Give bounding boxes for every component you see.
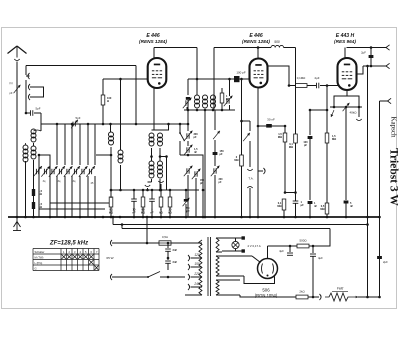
tube V1: [148, 58, 167, 88]
IF coil C: [211, 95, 216, 108]
earth: [13, 217, 21, 231]
rectifier tube 506: [258, 259, 278, 279]
label 506: [255, 288, 278, 299]
component 0,5MΩ: [141, 189, 145, 217]
label pad1: [0, 0, 1, 1]
svg-text:65 W: 65 W: [106, 256, 113, 260]
bus joints left: [16, 216, 97, 219]
bandfilter coil L4: [109, 123, 114, 145]
svg-text:μF: μF: [301, 203, 305, 207]
svg-text:4μF: 4μF: [279, 249, 284, 253]
wire w11: [188, 78, 198, 95]
resistor R7 0,1M: [289, 86, 297, 193]
cap C20 5nF: [308, 201, 318, 217]
resistor R8 0,1M: [277, 193, 285, 218]
cap C8: [184, 145, 198, 156]
resistor R9 1,5M: [325, 86, 336, 204]
svg-text:pF: pF: [194, 136, 198, 139]
wire V1 gridcap: [154, 48, 197, 96]
wire V1 bottom: [153, 88, 155, 130]
gang cap G6: [71, 166, 80, 177]
wire mains bottom: [168, 276, 185, 278]
svg-text:(RENS 1284): (RENS 1284): [242, 39, 270, 44]
svg-text:L (PG): L (PG): [35, 261, 43, 265]
bandfilter coil L5: [118, 78, 123, 163]
band switch table: [33, 249, 99, 271]
wire w10: [166, 157, 168, 191]
transformer sec 3: [216, 280, 230, 295]
gang cap G1: [33, 166, 42, 177]
tube V2: [250, 59, 268, 88]
tap 220: [188, 272, 202, 280]
wire V2 cathode: [257, 88, 260, 218]
bracket J2J3: [34, 87, 44, 97]
pot right leg: [356, 101, 361, 121]
resistor R6 1,5M: [278, 126, 287, 193]
svg-text:2nF: 2nF: [173, 260, 178, 264]
varrow pad1: [184, 155, 193, 217]
wire w4: [33, 143, 35, 189]
trimmer C1: [9, 81, 20, 95]
coil L3: [31, 146, 36, 159]
bracket w13: [188, 155, 204, 217]
svg-text:M (TW): M (TW): [35, 255, 44, 259]
V3 anode: [356, 66, 364, 74]
capacitor C2 5pF: [26, 107, 41, 132]
wire V3 top: [344, 48, 346, 59]
table row labels: [35, 250, 45, 270]
svg-text:MΩ: MΩ: [141, 211, 145, 215]
svg-text:506: 506: [262, 288, 270, 293]
trimmer C4: [183, 98, 192, 110]
wire mid h: [155, 123, 189, 126]
pot left leg: [331, 101, 334, 117]
cap C19 2uF: [377, 256, 388, 264]
field coil: [325, 293, 351, 301]
svg-text:500: 500: [274, 40, 280, 44]
transformer sec 1: [216, 238, 222, 252]
heater rect tap: [226, 280, 240, 284]
svg-text:500Ω: 500Ω: [300, 239, 308, 243]
gang cap G5: [64, 166, 73, 177]
component 20kΩ: [168, 189, 172, 217]
jack J2: [28, 84, 33, 90]
wire w14: [224, 79, 233, 110]
svg-text:nF: nF: [194, 151, 198, 154]
IF coil B: [203, 95, 208, 108]
wire bus drop: [146, 216, 149, 245]
svg-text:nF: nF: [132, 211, 136, 215]
wire w5: [33, 196, 35, 202]
wire w15: [309, 109, 329, 112]
resistor R4 1k: [220, 88, 229, 110]
svg-text:Ω: Ω: [107, 99, 109, 103]
svg-text:Kapsch: Kapsch: [390, 117, 398, 138]
B+ rail top: [214, 46, 271, 110]
resistor R5 2M: [234, 79, 250, 217]
cap C16 2nF: [165, 252, 177, 271]
component 6kΩ: [159, 189, 163, 217]
wire w2: [25, 80, 28, 114]
transformer primary winding: [199, 240, 202, 295]
label 65W: [106, 256, 113, 260]
wire w17: [379, 101, 381, 297]
label V3: [334, 33, 356, 44]
svg-text:T.A.: T.A.: [248, 177, 253, 181]
gang cap G8: [86, 166, 95, 177]
svg-text:(RES 964): (RES 964): [334, 39, 356, 44]
svg-text:MΩ: MΩ: [109, 211, 113, 215]
coil L1: [31, 129, 41, 142]
osc coil bar: [152, 123, 170, 130]
svg-text:MΩ: MΩ: [278, 135, 282, 139]
svg-text:MΩ: MΩ: [234, 158, 238, 162]
coil L2: [23, 145, 28, 162]
osc coil La: [149, 133, 154, 146]
svg-text:0,5A: 0,5A: [162, 235, 168, 239]
jack J1: [26, 73, 30, 79]
resistor R11 500: [290, 239, 314, 248]
field coil label: [332, 287, 348, 292]
lamp P1: [222, 236, 261, 252]
speaker line 1: [347, 45, 390, 50]
grid line V3: [289, 76, 338, 88]
coil L6: [96, 154, 112, 157]
cap C12 1uF: [293, 193, 304, 218]
varrow pad2: [192, 110, 205, 217]
svg-text:pF: pF: [304, 144, 308, 147]
cap C9 150pF: [213, 150, 225, 166]
wire w9: [110, 190, 112, 198]
fork osc: [145, 179, 162, 191]
wire w7: [135, 66, 138, 126]
svg-text:0,1MΩ: 0,1MΩ: [297, 76, 306, 80]
pot 40k: [330, 103, 362, 115]
cap C10 100pF: [197, 71, 250, 83]
wire w8: [111, 147, 121, 190]
gang vertical feeds: [57, 124, 95, 165]
svg-text:30 nF: 30 nF: [267, 118, 275, 122]
avc line b: [39, 176, 105, 209]
ground bus: [8, 216, 381, 219]
tap 240: [188, 282, 202, 290]
fork det: [158, 181, 163, 190]
osc switch S4: [179, 123, 190, 157]
svg-text:2μF: 2μF: [314, 76, 319, 80]
svg-text:2μF: 2μF: [383, 260, 388, 264]
gang cap G2: [41, 166, 50, 177]
rect wiring 2: [226, 276, 275, 284]
osc junction: [150, 148, 168, 161]
svg-text:pF: pF: [9, 91, 12, 95]
pickup TA: [247, 141, 253, 217]
avc line a: [50, 155, 109, 203]
transformer sec 2: [216, 256, 226, 276]
bus dots: [102, 216, 369, 219]
joint 193: [284, 191, 297, 194]
svg-text:Triebst 3 W: Triebst 3 W: [388, 148, 400, 206]
jack J3: [28, 94, 33, 100]
tap 150: [188, 262, 202, 270]
cap C11 30nF: [258, 118, 286, 128]
label V2: [242, 33, 270, 44]
speaker line 3: [380, 98, 392, 103]
speaker line 2: [363, 63, 390, 68]
antenna coupling: [14, 59, 19, 217]
table header: [63, 250, 98, 254]
text Triebst: [388, 148, 400, 206]
rect anode out: [268, 246, 291, 259]
svg-text:220: 220: [193, 272, 200, 276]
tap 120: [188, 253, 202, 261]
primary leads: [185, 240, 202, 295]
osc coil Lb: [158, 133, 163, 146]
resistor R2: [32, 202, 43, 209]
cap C15 2nF: [165, 243, 177, 252]
jack J4: [258, 168, 265, 174]
switch S1: [213, 110, 220, 152]
text Kapsch: [390, 117, 398, 138]
svg-text:5pF: 5pF: [36, 107, 41, 111]
svg-text:40kΩ: 40kΩ: [349, 111, 357, 115]
label V1: [139, 33, 167, 44]
tap line top: [185, 276, 188, 278]
cap C17 4uF: [279, 245, 293, 256]
wire mains top: [167, 242, 202, 245]
gang bottoms: [38, 154, 95, 217]
rect wiring 1: [226, 256, 261, 263]
svg-text:MΩ: MΩ: [320, 207, 324, 211]
svg-text:G: G: [35, 266, 37, 270]
tube V3: [338, 58, 357, 90]
cap C21 5nF: [344, 201, 354, 218]
wire V2 gridtop: [257, 48, 259, 59]
cathode return: [345, 106, 348, 200]
table marks: [62, 255, 99, 270]
varrow pad3: [211, 166, 223, 217]
svg-text:(1): (1): [9, 81, 12, 85]
IF base: [184, 109, 235, 112]
resistor R10: [320, 203, 328, 217]
svg-text:kΩ: kΩ: [159, 211, 163, 215]
bracket left: [39, 155, 50, 203]
osc coil Ld: [158, 161, 163, 178]
wire w6: [33, 209, 35, 217]
cap C18 4uF: [310, 246, 323, 297]
trimmer C row: [183, 189, 190, 217]
svg-text:2nF: 2nF: [173, 248, 178, 252]
svg-text:MΩ: MΩ: [289, 145, 293, 149]
wire V2 anode: [268, 66, 291, 87]
fuse F1: [159, 235, 171, 245]
switch S3 mains: [147, 270, 169, 278]
junction row1: [110, 189, 199, 192]
jack J6 arrow: [351, 296, 358, 298]
wire center: [204, 110, 206, 217]
svg-text:MΩ: MΩ: [277, 204, 281, 208]
jack J5: [313, 294, 321, 300]
gang labels: [43, 180, 94, 185]
svg-text:nF: nF: [150, 211, 154, 215]
svg-text:Schalter: Schalter: [35, 250, 45, 254]
resistor R3 100: [101, 79, 147, 125]
svg-text:(RENS 1284): (RENS 1284): [139, 39, 167, 44]
jack mains 2: [110, 274, 148, 280]
gang cap G4: [56, 166, 65, 177]
cap C13 100pF: [303, 110, 312, 200]
cap C5 100pF: [186, 97, 190, 110]
wire w16: [367, 66, 369, 297]
coil 500: [271, 40, 296, 85]
svg-text:Feld: Feld: [337, 287, 343, 291]
cap C7 100pF: [184, 110, 198, 146]
resistor R1: [32, 189, 43, 196]
transformer core: [208, 237, 211, 296]
svg-text:pF: pF: [220, 153, 224, 156]
svg-text:ZF=128,5 kHz: ZF=128,5 kHz: [49, 241, 88, 247]
wire gangline: [41, 123, 155, 126]
component 5nF: [149, 189, 155, 217]
IF coil A: [195, 95, 200, 110]
table title: [49, 241, 88, 247]
antenna: [8, 46, 27, 58]
svg-text:MΩ: MΩ: [332, 137, 336, 141]
gang cap G7: [79, 166, 88, 177]
resistor R12 2k: [230, 290, 314, 299]
wire w3: [25, 143, 27, 217]
trimmer C3 5pF: [71, 116, 81, 128]
svg-text:2kΩ: 2kΩ: [299, 290, 305, 294]
wire w1: [26, 66, 136, 76]
svg-text:nF: nF: [350, 205, 354, 208]
svg-text:5pF: 5pF: [76, 116, 81, 120]
svg-text:4 V 0,17 A: 4 V 0,17 A: [247, 244, 260, 248]
component 0,1MΩ: [109, 189, 113, 217]
V3 cathode: [334, 90, 359, 101]
svg-text:kΩ: kΩ: [168, 211, 172, 215]
gang cap G3: [49, 166, 58, 177]
svg-text:4μF: 4μF: [318, 256, 323, 260]
osc coil Lc: [149, 161, 154, 178]
svg-text:2μF: 2μF: [361, 51, 366, 55]
cap C14 2uF: [361, 48, 373, 68]
heater line 2: [121, 223, 330, 246]
heater line 1: [112, 216, 369, 226]
switch S2: [243, 131, 250, 141]
component 10nF: [131, 189, 137, 217]
jack mains 1: [110, 240, 159, 246]
svg-text:100 pF: 100 pF: [236, 71, 246, 75]
wire w19: [358, 296, 381, 299]
svg-text:nF: nF: [314, 205, 318, 208]
